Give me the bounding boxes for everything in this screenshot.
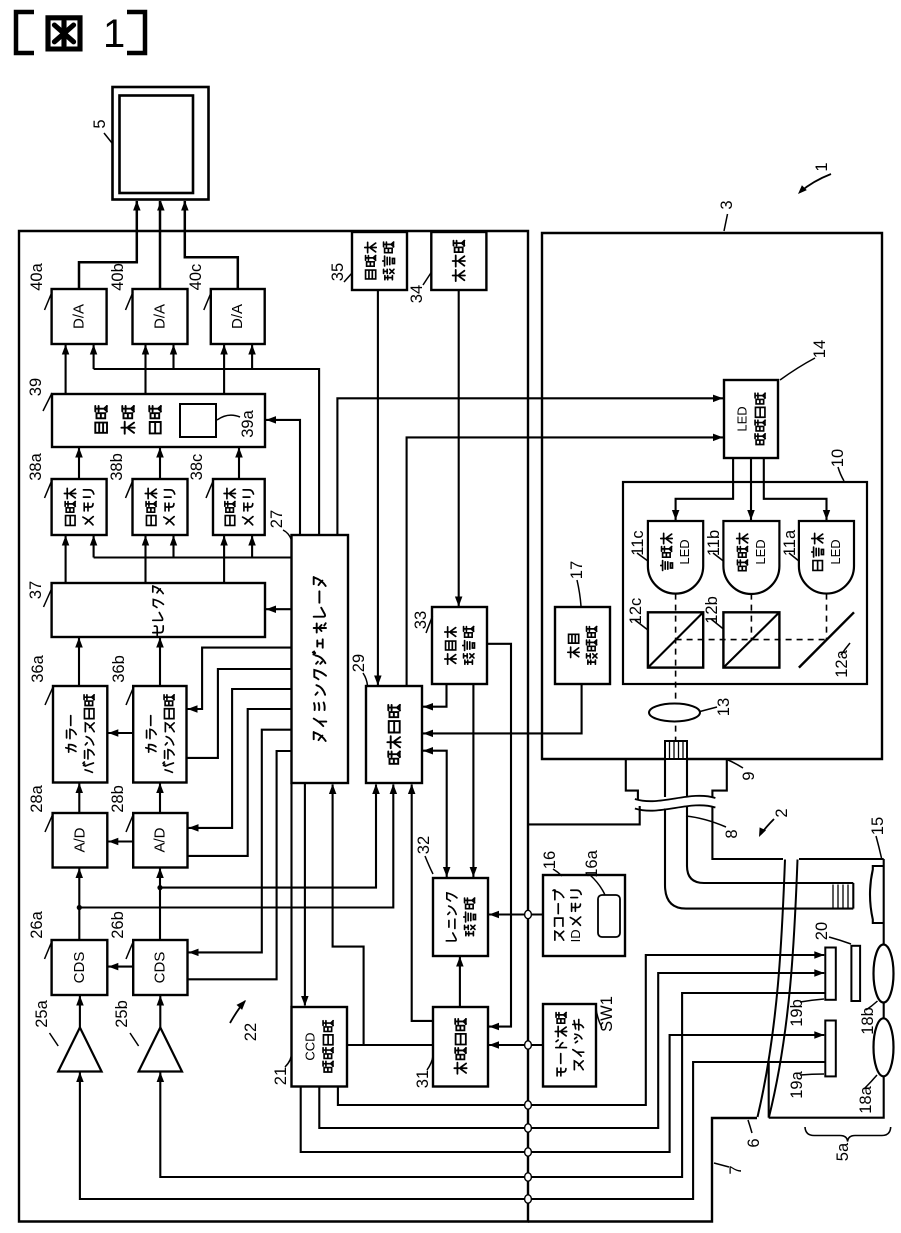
- svg-text:39a: 39a: [239, 409, 257, 437]
- svg-text:CCD: CCD: [303, 1032, 318, 1060]
- svg-text:A/D: A/D: [152, 827, 169, 852]
- svg-text:7: 7: [727, 1165, 745, 1174]
- svg-text:LED: LED: [828, 539, 843, 564]
- svg-text:1: 1: [813, 162, 831, 171]
- svg-text:34: 34: [408, 285, 426, 303]
- svg-text:26b: 26b: [109, 911, 127, 939]
- svg-text:35: 35: [329, 263, 347, 281]
- svg-text:39: 39: [27, 378, 45, 396]
- svg-text:5a: 5a: [834, 1142, 852, 1161]
- svg-text:LED: LED: [735, 406, 750, 431]
- svg-text:17: 17: [568, 561, 586, 579]
- svg-text:38b: 38b: [108, 453, 126, 481]
- svg-text:14: 14: [811, 340, 829, 358]
- svg-text:38c: 38c: [188, 454, 206, 481]
- svg-text:D/A: D/A: [71, 304, 88, 329]
- svg-text:22: 22: [242, 1023, 260, 1041]
- svg-text:15: 15: [869, 817, 887, 835]
- svg-text:6: 6: [745, 1138, 763, 1147]
- svg-text:32: 32: [415, 836, 433, 854]
- svg-text:5: 5: [91, 119, 109, 128]
- svg-text:33: 33: [412, 611, 430, 629]
- svg-text:28a: 28a: [28, 784, 46, 812]
- svg-text:29: 29: [350, 654, 368, 672]
- svg-text:11b: 11b: [705, 530, 723, 556]
- svg-text:1: 1: [103, 12, 125, 56]
- svg-text:18a: 18a: [857, 1085, 875, 1113]
- svg-text:16: 16: [541, 851, 559, 869]
- svg-text:CDS: CDS: [71, 952, 88, 984]
- svg-text:27: 27: [268, 510, 286, 528]
- svg-text:9: 9: [740, 771, 758, 780]
- svg-text:20: 20: [813, 922, 831, 940]
- svg-text:37: 37: [27, 581, 45, 599]
- svg-text:ID: ID: [568, 929, 583, 942]
- svg-text:11a: 11a: [781, 529, 799, 556]
- svg-text:13: 13: [715, 698, 733, 716]
- svg-text:D/A: D/A: [152, 304, 169, 329]
- svg-text:26a: 26a: [28, 910, 46, 938]
- svg-text:38a: 38a: [27, 452, 45, 480]
- svg-text:31: 31: [414, 1070, 432, 1088]
- svg-text:19b: 19b: [788, 999, 806, 1027]
- svg-text:40c: 40c: [187, 264, 205, 291]
- svg-text:LED: LED: [753, 539, 768, 564]
- svg-text:11c: 11c: [629, 530, 647, 555]
- svg-text:25a: 25a: [33, 999, 51, 1027]
- svg-text:D/A: D/A: [229, 304, 246, 329]
- svg-text:10: 10: [829, 449, 847, 467]
- svg-text:40b: 40b: [109, 263, 127, 291]
- svg-text:2: 2: [773, 808, 791, 817]
- svg-text:16a: 16a: [583, 849, 601, 877]
- svg-text:36b: 36b: [110, 655, 128, 683]
- svg-text:LED: LED: [677, 539, 692, 564]
- svg-text:3: 3: [718, 200, 736, 209]
- svg-text:8: 8: [723, 829, 741, 838]
- svg-text:36a: 36a: [29, 654, 47, 682]
- svg-text:21: 21: [272, 1067, 290, 1085]
- svg-text:CDS: CDS: [152, 952, 169, 984]
- svg-text:18b: 18b: [859, 1007, 877, 1035]
- svg-text:25b: 25b: [113, 1000, 131, 1028]
- svg-text:A/D: A/D: [72, 827, 89, 852]
- svg-text:40a: 40a: [28, 262, 46, 290]
- svg-text:28b: 28b: [109, 785, 127, 813]
